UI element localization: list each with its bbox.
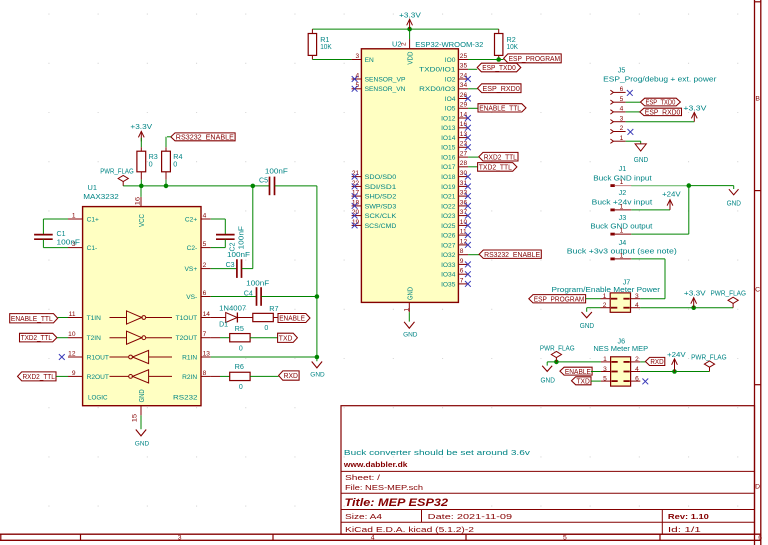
svg-text:T2IN: T2IN bbox=[87, 335, 102, 342]
svg-text:D: D bbox=[755, 483, 760, 490]
svg-text:IO17: IO17 bbox=[441, 164, 456, 171]
svg-text:RS3232_ENABLE: RS3232_ENABLE bbox=[484, 252, 540, 259]
svg-text:GND: GND bbox=[310, 372, 325, 379]
svg-text:IO13: IO13 bbox=[441, 125, 456, 132]
svg-text:IO2: IO2 bbox=[445, 76, 456, 83]
svg-text:Size: A4: Size: A4 bbox=[345, 512, 382, 521]
svg-text:2: 2 bbox=[635, 356, 639, 363]
svg-text:TXD2_TTL: TXD2_TTL bbox=[479, 165, 512, 172]
svg-text:2: 2 bbox=[401, 42, 408, 46]
svg-text:13: 13 bbox=[460, 131, 468, 138]
svg-text:GND: GND bbox=[727, 201, 741, 208]
svg-text:ESP_PROGRAM: ESP_PROGRAM bbox=[509, 56, 561, 63]
svg-text:1: 1 bbox=[620, 228, 624, 235]
svg-text:ESP_Prog/debug + ext. power: ESP_Prog/debug + ext. power bbox=[603, 74, 717, 83]
svg-text:ESP_RXD0: ESP_RXD0 bbox=[483, 86, 520, 93]
svg-text:24: 24 bbox=[460, 72, 468, 79]
svg-text:IO32: IO32 bbox=[441, 252, 456, 259]
svg-text:IO18: IO18 bbox=[441, 174, 456, 181]
svg-text:T1IN: T1IN bbox=[87, 315, 102, 322]
svg-text:100nF: 100nF bbox=[239, 226, 246, 250]
svg-text:B: B bbox=[755, 95, 760, 102]
svg-text:3: 3 bbox=[635, 293, 639, 300]
svg-text:C1+: C1+ bbox=[87, 216, 99, 223]
svg-text:IO23: IO23 bbox=[441, 213, 456, 220]
svg-text:26: 26 bbox=[460, 92, 468, 99]
svg-text:3: 3 bbox=[178, 535, 182, 542]
svg-text:IO16: IO16 bbox=[441, 155, 456, 162]
svg-text:23: 23 bbox=[460, 141, 468, 148]
svg-text:1: 1 bbox=[620, 135, 624, 142]
svg-text:5: 5 bbox=[603, 375, 607, 382]
svg-text:IO35: IO35 bbox=[441, 281, 456, 288]
svg-text:J4: J4 bbox=[619, 238, 627, 247]
svg-text:1: 1 bbox=[72, 212, 76, 219]
svg-text:ENABLE_TTL: ENABLE_TTL bbox=[479, 105, 521, 112]
svg-text:4: 4 bbox=[635, 366, 639, 373]
svg-text:NES Meter MEP: NES Meter MEP bbox=[593, 344, 648, 353]
svg-text:36: 36 bbox=[460, 199, 468, 206]
svg-text:0: 0 bbox=[149, 160, 153, 169]
svg-text:SWP/SD3: SWP/SD3 bbox=[365, 203, 397, 210]
svg-text:R6: R6 bbox=[235, 364, 244, 371]
svg-text:10K: 10K bbox=[507, 42, 519, 51]
svg-text:U1: U1 bbox=[88, 183, 97, 192]
svg-text:3: 3 bbox=[356, 53, 360, 60]
svg-text:GND: GND bbox=[403, 332, 418, 339]
svg-text:PWR_FLAG: PWR_FLAG bbox=[691, 355, 727, 362]
svg-text:SHD/SD2: SHD/SD2 bbox=[365, 194, 397, 201]
svg-text:SENSOR_VN: SENSOR_VN bbox=[365, 86, 406, 93]
svg-text:+3.3V: +3.3V bbox=[684, 289, 706, 298]
svg-text:C2+: C2+ bbox=[185, 216, 197, 223]
svg-text:8: 8 bbox=[460, 248, 464, 255]
svg-text:IO14: IO14 bbox=[441, 135, 456, 142]
svg-text:+24V: +24V bbox=[667, 350, 686, 359]
svg-text:ENABLE: ENABLE bbox=[279, 316, 305, 323]
svg-text:14: 14 bbox=[460, 111, 468, 118]
svg-text:VS-: VS- bbox=[186, 294, 197, 301]
svg-text:R7: R7 bbox=[269, 306, 278, 313]
svg-text:1: 1 bbox=[620, 179, 624, 186]
svg-text:R2IN: R2IN bbox=[182, 374, 197, 381]
svg-text:TXD2_TTL: TXD2_TTL bbox=[21, 335, 52, 342]
svg-text:C1-: C1- bbox=[87, 245, 98, 252]
svg-text:1: 1 bbox=[620, 253, 624, 260]
svg-text:Rev: 1.10: Rev: 1.10 bbox=[668, 512, 709, 521]
svg-text:GND: GND bbox=[580, 323, 594, 330]
svg-text:1N4007: 1N4007 bbox=[219, 306, 246, 313]
svg-text:6: 6 bbox=[460, 268, 464, 275]
svg-text:VS+: VS+ bbox=[185, 266, 198, 273]
svg-text:8: 8 bbox=[203, 370, 207, 377]
svg-text:C2-: C2- bbox=[187, 245, 198, 252]
svg-text:6: 6 bbox=[203, 290, 207, 297]
svg-text:1: 1 bbox=[404, 308, 411, 312]
svg-text:GND: GND bbox=[135, 440, 150, 447]
svg-text:+3.3V: +3.3V bbox=[399, 10, 421, 19]
svg-text:ESP_TXD0: ESP_TXD0 bbox=[482, 65, 516, 72]
svg-text:28: 28 bbox=[460, 160, 468, 167]
svg-text:5: 5 bbox=[563, 535, 567, 542]
svg-text:5: 5 bbox=[356, 82, 360, 89]
svg-text:VDD: VDD bbox=[408, 52, 415, 65]
svg-text:VCC: VCC bbox=[139, 214, 146, 227]
svg-text:1: 1 bbox=[603, 293, 607, 300]
svg-text:GND: GND bbox=[634, 157, 648, 164]
svg-text:Title: MEP ESP32: Title: MEP ESP32 bbox=[345, 497, 449, 509]
svg-text:10K: 10K bbox=[320, 42, 332, 51]
svg-text:100nF: 100nF bbox=[57, 240, 81, 247]
svg-text:GND: GND bbox=[541, 378, 555, 385]
svg-text:2: 2 bbox=[620, 125, 624, 132]
svg-text:ESP32-WROOM-32: ESP32-WROOM-32 bbox=[415, 40, 483, 49]
svg-text:IO4: IO4 bbox=[445, 96, 456, 103]
svg-text:31: 31 bbox=[460, 180, 468, 187]
svg-text:SDI/SD1: SDI/SD1 bbox=[365, 184, 397, 191]
svg-text:RXD2_TTL: RXD2_TTL bbox=[23, 374, 55, 381]
svg-text:TXD: TXD bbox=[279, 335, 293, 342]
svg-text:T2OUT: T2OUT bbox=[176, 335, 198, 342]
svg-text:4: 4 bbox=[620, 106, 624, 113]
svg-text:GND: GND bbox=[408, 287, 415, 300]
svg-text:C3: C3 bbox=[226, 262, 235, 269]
svg-text:C2: C2 bbox=[230, 242, 237, 251]
svg-text:IO27: IO27 bbox=[441, 242, 456, 249]
svg-text:3: 3 bbox=[603, 366, 607, 373]
svg-text:C5: C5 bbox=[259, 177, 268, 184]
svg-text:R1IN: R1IN bbox=[182, 354, 197, 361]
svg-text:7: 7 bbox=[460, 277, 464, 284]
svg-text:6: 6 bbox=[635, 375, 639, 382]
svg-text:R2OUT: R2OUT bbox=[87, 374, 109, 381]
svg-text:GND: GND bbox=[139, 389, 146, 402]
svg-text:1: 1 bbox=[620, 204, 624, 211]
svg-text:+3.3V: +3.3V bbox=[683, 103, 706, 112]
svg-text:3: 3 bbox=[620, 115, 624, 122]
svg-text:16: 16 bbox=[134, 196, 141, 205]
svg-text:RXD: RXD bbox=[650, 359, 663, 366]
svg-text:11: 11 bbox=[69, 311, 76, 318]
svg-text:EN: EN bbox=[365, 57, 374, 64]
svg-text:RXD: RXD bbox=[284, 373, 298, 380]
svg-text:13: 13 bbox=[203, 350, 211, 357]
svg-text:+24V: +24V bbox=[662, 189, 681, 198]
svg-text:D1: D1 bbox=[219, 322, 228, 329]
svg-text:15: 15 bbox=[131, 413, 138, 422]
svg-text:100nF: 100nF bbox=[227, 252, 250, 259]
svg-text:R1OUT: R1OUT bbox=[87, 354, 109, 361]
svg-text:PWR_FLAG: PWR_FLAG bbox=[540, 345, 575, 352]
svg-text:R5: R5 bbox=[235, 326, 244, 333]
svg-text:34: 34 bbox=[460, 82, 468, 89]
svg-text:4: 4 bbox=[371, 535, 375, 542]
svg-text:TXD0/IO1: TXD0/IO1 bbox=[419, 67, 456, 74]
svg-text:0: 0 bbox=[239, 384, 243, 391]
svg-text:1: 1 bbox=[603, 356, 607, 363]
svg-text:35: 35 bbox=[460, 63, 468, 70]
svg-text:J2: J2 bbox=[619, 188, 627, 197]
svg-text:RS3232_ENABLE: RS3232_ENABLE bbox=[176, 134, 234, 141]
svg-text:IO15: IO15 bbox=[441, 145, 456, 152]
svg-text:6: 6 bbox=[758, 535, 762, 542]
svg-text:PWR_FLAG: PWR_FLAG bbox=[711, 291, 747, 298]
svg-text:TXD: TXD bbox=[577, 378, 590, 385]
svg-text:www.dabbler.dk: www.dabbler.dk bbox=[343, 460, 408, 469]
svg-text:12: 12 bbox=[460, 238, 468, 245]
svg-text:33: 33 bbox=[460, 190, 468, 197]
svg-text:IO5: IO5 bbox=[445, 106, 456, 113]
svg-text:0: 0 bbox=[173, 160, 177, 169]
svg-text:IO26: IO26 bbox=[441, 233, 456, 240]
svg-text:9: 9 bbox=[460, 258, 464, 265]
svg-text:T1OUT: T1OUT bbox=[176, 315, 198, 322]
svg-text:+3.3V: +3.3V bbox=[130, 122, 152, 131]
svg-text:SDO/SD0: SDO/SD0 bbox=[365, 174, 397, 181]
svg-text:11: 11 bbox=[460, 229, 467, 236]
svg-text:IO22: IO22 bbox=[441, 203, 456, 210]
svg-text:IO33: IO33 bbox=[441, 262, 456, 269]
svg-text:ESP_TXD0: ESP_TXD0 bbox=[646, 100, 676, 107]
svg-text:IO0: IO0 bbox=[445, 57, 456, 64]
svg-text:2: 2 bbox=[203, 262, 207, 269]
svg-text:5: 5 bbox=[203, 241, 207, 248]
svg-text:9: 9 bbox=[72, 370, 76, 377]
svg-text:C: C bbox=[755, 287, 760, 294]
svg-text:ESP_RXD0: ESP_RXD0 bbox=[645, 110, 681, 117]
svg-text:IO21: IO21 bbox=[441, 194, 456, 201]
svg-text:C4: C4 bbox=[244, 291, 253, 298]
svg-text:16: 16 bbox=[460, 121, 468, 128]
svg-text:RS232: RS232 bbox=[173, 395, 198, 402]
svg-text:6: 6 bbox=[620, 86, 624, 93]
svg-text:100nF: 100nF bbox=[246, 281, 269, 288]
svg-text:100nF: 100nF bbox=[265, 168, 288, 175]
svg-text:SCK/CLK: SCK/CLK bbox=[365, 213, 397, 220]
svg-text:Id: 1/1: Id: 1/1 bbox=[668, 525, 701, 534]
svg-text:KiCad E.D.A. kicad (5.1.2)-2: KiCad E.D.A. kicad (5.1.2)-2 bbox=[345, 525, 474, 534]
svg-text:MAX3232: MAX3232 bbox=[83, 192, 119, 201]
svg-text:C1: C1 bbox=[57, 231, 66, 238]
svg-text:Date: 2021-11-09: Date: 2021-11-09 bbox=[428, 512, 512, 521]
svg-text:PWR_FLAG: PWR_FLAG bbox=[100, 169, 134, 176]
svg-text:IO25: IO25 bbox=[441, 223, 456, 230]
svg-text:IO34: IO34 bbox=[441, 272, 456, 279]
svg-text:4: 4 bbox=[203, 212, 207, 219]
svg-text:0: 0 bbox=[264, 325, 268, 332]
svg-text:10: 10 bbox=[460, 219, 468, 226]
svg-text:IO19: IO19 bbox=[441, 184, 456, 191]
svg-text:File: NES-MEP.sch: File: NES-MEP.sch bbox=[345, 483, 423, 492]
svg-text:5: 5 bbox=[620, 96, 624, 103]
svg-text:ESP_PROGRAM: ESP_PROGRAM bbox=[534, 296, 585, 303]
svg-text:37: 37 bbox=[460, 209, 468, 216]
svg-text:14: 14 bbox=[203, 311, 211, 318]
svg-text:IO12: IO12 bbox=[441, 115, 456, 122]
svg-text:29: 29 bbox=[460, 102, 468, 109]
svg-text:SENSOR_VP: SENSOR_VP bbox=[365, 76, 406, 83]
svg-text:RXD0/IO3: RXD0/IO3 bbox=[419, 86, 456, 93]
svg-text:12: 12 bbox=[68, 350, 76, 357]
svg-text:ENABLE_TTL: ENABLE_TTL bbox=[11, 316, 53, 323]
svg-text:ENABLE: ENABLE bbox=[565, 369, 591, 376]
svg-text:27: 27 bbox=[460, 151, 468, 158]
svg-text:4: 4 bbox=[635, 302, 639, 309]
svg-text:30: 30 bbox=[460, 170, 468, 177]
svg-text:Buck converter should be set a: Buck converter should be set around 3.6v bbox=[344, 448, 530, 457]
svg-text:7: 7 bbox=[203, 331, 207, 338]
svg-text:J1: J1 bbox=[619, 164, 627, 173]
svg-text:Sheet: /: Sheet: / bbox=[345, 473, 381, 482]
svg-text:10: 10 bbox=[68, 331, 76, 338]
svg-text:LOGIC: LOGIC bbox=[88, 395, 108, 402]
svg-text:0: 0 bbox=[239, 346, 243, 353]
svg-text:SCS/CMD: SCS/CMD bbox=[365, 223, 397, 230]
svg-text:2: 2 bbox=[603, 302, 607, 309]
svg-text:25: 25 bbox=[460, 53, 468, 60]
svg-text:4: 4 bbox=[356, 72, 360, 79]
svg-text:RXD2_TTL: RXD2_TTL bbox=[484, 154, 517, 161]
